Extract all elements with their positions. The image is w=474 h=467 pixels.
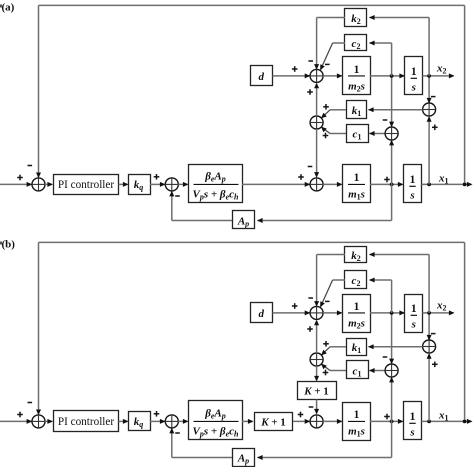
- node v2 junction (a): [390, 74, 394, 78]
- gain block k2 (b): [345, 247, 367, 264]
- svg-text:K + 1: K + 1: [303, 386, 329, 398]
- sign + k1 input coupling sum (a): [323, 104, 329, 110]
- sign + kq input sum2 (a): [154, 174, 160, 180]
- wire x1 output (b): [422, 419, 473, 424]
- svg-text:1: 1: [354, 301, 360, 313]
- sign + k1 input coupling sum (b): [323, 341, 329, 347]
- block integrator 1/s lower (a): [404, 165, 422, 203]
- wire TF to K+1 (b): [242, 419, 254, 424]
- svg-text:1: 1: [411, 66, 417, 78]
- gain block c2 (b): [345, 271, 367, 289]
- wire sum1 to PI (b): [45, 419, 53, 424]
- wire coupling to K+1 (b): [314, 366, 319, 382]
- svg-text:Vps + βech: Vps + βech: [193, 189, 239, 202]
- wire x1 feedback top (b): [36, 242, 465, 419]
- wire x2 up to k2 (a): [369, 15, 429, 76]
- wire sum2 to valve TF (a): [178, 182, 188, 187]
- sign + d input m2 (b): [292, 303, 298, 309]
- node v1 junction (a): [390, 183, 394, 187]
- summing junction coupling (a): [310, 116, 323, 129]
- gain block k1 (a): [347, 101, 367, 119]
- summing junction m2 (b): [310, 306, 323, 319]
- block hydraulic TF beAp/(Vps+bech) (a): [189, 165, 243, 203]
- sign + c1 input coupling sum (a): [323, 133, 329, 139]
- gain block kq (a): [129, 175, 151, 195]
- label x1 (a): [438, 173, 449, 186]
- node x2 tap (a): [427, 74, 431, 78]
- summing junction m1 (b): [310, 415, 323, 428]
- sign - k2 input m2 (b): [308, 297, 313, 299]
- svg-text:1: 1: [354, 172, 360, 184]
- sign - x2 input diff sum (a): [431, 96, 436, 98]
- wire v1 down to Ap (a): [257, 184, 392, 223]
- wire m1s out to integrator (a): [370, 182, 404, 187]
- svg-text:K + 1: K + 1: [260, 417, 286, 429]
- wire c2 to m2 sum (a): [320, 43, 345, 70]
- svg-text:s: s: [409, 190, 414, 202]
- sign - v2 input c1 sum (a): [383, 119, 388, 121]
- wire v2 down to c1 sum (b): [389, 313, 394, 364]
- node label (b): [0, 238, 15, 250]
- wire diff sum to k1 (a): [368, 107, 423, 112]
- gain block c1 (a): [347, 125, 369, 143]
- sign + c1 input coupling sum (b): [323, 370, 329, 376]
- block integrator 1/s upper (b): [405, 295, 423, 333]
- wire coupling to m1 sum (a): [314, 129, 319, 178]
- node x1 tap k-sum (a): [427, 183, 431, 187]
- summing junction diff x2-x1 (a): [423, 103, 436, 116]
- wire c1 sum to c1 (a): [369, 131, 385, 136]
- gain block K+1 forward (b): [255, 413, 293, 431]
- wire m1s out to integrator (b): [370, 419, 404, 424]
- wire coupling to m2 sum (b): [314, 320, 319, 353]
- node v1 junction (b): [390, 420, 394, 424]
- summing junction S1 (b): [32, 415, 45, 428]
- sign + kq input sum2 (b): [154, 411, 160, 417]
- gain block c2 (a): [345, 35, 367, 52]
- label x2 (a): [436, 63, 447, 76]
- svg-text:m1s: m1s: [348, 426, 365, 439]
- wire v2 up to c2 (b): [369, 278, 392, 313]
- sign - c2 input m2 (a): [325, 64, 330, 66]
- summing junction diff x2-x1 (b): [423, 340, 436, 353]
- wire x1 output (a): [422, 182, 473, 187]
- wire m2s out to integrator (a): [370, 73, 405, 78]
- sign + input sum1 (b): [17, 412, 23, 418]
- block integrator 1/s lower (b): [404, 402, 422, 440]
- svg-text:PI controller: PI controller: [58, 179, 115, 191]
- sign - c2 input m2 (b): [325, 301, 330, 303]
- block 1/m2s (b): [343, 295, 371, 333]
- node label (a): [0, 1, 15, 13]
- wire coupling to m2 sum (a): [314, 83, 319, 116]
- wire x2 down to diff sum (a): [427, 76, 432, 104]
- wire sum1 to PI (a): [45, 182, 53, 187]
- wire K+1 to m1 sum top (b): [314, 400, 319, 415]
- svg-text:(a): (a): [2, 1, 15, 13]
- wire x2 output (a): [423, 73, 455, 78]
- sign + TF input m1 sum (a): [298, 174, 304, 180]
- wire PI to kq (a): [119, 182, 129, 187]
- wire c1 sum to c1 (b): [369, 368, 385, 373]
- svg-text:d: d: [258, 308, 264, 320]
- wire k2 to m2 sum (a): [314, 18, 345, 70]
- wire x1 up to diff sum (a): [427, 116, 432, 184]
- wire k2 to m2 sum (b): [314, 255, 345, 307]
- svg-text:Vps + βech: Vps + βech: [193, 426, 239, 439]
- summing junction S2 (a): [165, 178, 178, 191]
- svg-text:1: 1: [411, 303, 417, 315]
- wire x1 up to diff sum (b): [427, 353, 432, 421]
- wire K+1 to m1 sum (b): [293, 419, 310, 424]
- gain block k2 (a): [345, 9, 367, 27]
- summing junction S2 (b): [165, 415, 178, 428]
- sign + x1 input diff sum (a): [432, 125, 438, 131]
- sign + d input m2 (a): [292, 66, 298, 72]
- label x1 (b): [438, 410, 449, 423]
- wire v1 up to c1 sum (a): [389, 140, 394, 185]
- svg-text:1: 1: [354, 409, 360, 421]
- input block d (a): [251, 66, 273, 86]
- svg-text:m2s: m2s: [348, 81, 365, 94]
- sign + coupling input m2 (a): [307, 89, 313, 95]
- wire input r(b): [0, 419, 32, 424]
- wire x1 feedback top (a): [36, 5, 465, 182]
- wire diff sum to k1 (b): [368, 344, 423, 349]
- wire v2 down to c1 sum (a): [389, 76, 394, 127]
- wire x2 up to k2 (b): [369, 252, 429, 313]
- label x2 (b): [436, 300, 447, 313]
- summing junction S1 (a): [32, 178, 45, 191]
- block 1/m1s (b): [343, 403, 371, 441]
- sign - k2 input m2 (a): [308, 60, 313, 62]
- block 1/m1s (a): [343, 165, 371, 203]
- summing junction coupling (b): [310, 353, 323, 366]
- svg-text:PI controller: PI controller: [58, 416, 115, 428]
- sign - feedback sum1 (a): [28, 165, 33, 167]
- sign - x2 input diff sum (b): [431, 333, 436, 335]
- wire PI to kq (b): [119, 419, 129, 424]
- gain block Ap (b): [233, 449, 255, 467]
- wire Ap to sum2 (a): [169, 191, 232, 221]
- input block d (b): [251, 303, 273, 323]
- block integrator 1/s upper (a): [405, 57, 423, 95]
- wire m2s out to integrator (b): [370, 310, 405, 315]
- gain block kq (b): [129, 412, 151, 431]
- wire d to m2 sum (b): [273, 310, 311, 315]
- wire c2 to m2 sum (b): [320, 280, 345, 307]
- sign - coupling input m1 (a): [308, 166, 313, 168]
- svg-text:s: s: [411, 319, 416, 331]
- svg-text:m1s: m1s: [348, 189, 365, 202]
- summing junction m1 (a): [310, 178, 323, 191]
- wire kq to sum2 (a): [150, 182, 166, 187]
- svg-text:1: 1: [410, 174, 416, 186]
- block hydraulic TF beAp/(Vps+bech) (b): [189, 401, 243, 440]
- svg-text:1: 1: [354, 64, 360, 76]
- wire m1 sum to 1/m1s (a): [323, 182, 342, 187]
- gain block Ap (a): [233, 211, 255, 229]
- block PI controller (b): [54, 411, 119, 432]
- node v2 junction (b): [390, 311, 394, 315]
- wire v2 up to c2 (a): [369, 41, 392, 76]
- sign + coupling input m2 (b): [307, 326, 313, 332]
- wire c1 to coupling sum (a): [321, 127, 346, 134]
- gain block K+1 coupling (b): [298, 382, 337, 400]
- wire m2 sum to 1/m2s (a): [323, 73, 342, 78]
- sign + input sum1 (a): [17, 175, 23, 181]
- sign - v2 input c1 sum (b): [383, 356, 388, 358]
- svg-text:m2s: m2s: [348, 318, 365, 331]
- wire sum2 to valve TF (b): [178, 419, 188, 424]
- wire v1 up to c1 sum (b): [389, 377, 394, 422]
- summing junction m2 (a): [310, 69, 323, 82]
- wire k1 to coupling sum (b): [321, 347, 346, 356]
- wire input r(a): [0, 182, 32, 187]
- block 1/m2s (a): [343, 57, 371, 95]
- svg-text:s: s: [411, 82, 416, 94]
- sign - K+1 input m1 (b): [309, 406, 314, 408]
- wire m1 sum to 1/m1s (b): [323, 419, 342, 424]
- node x1 tap k-sum (b): [427, 420, 431, 424]
- wire x2 down to diff sum (b): [427, 313, 432, 341]
- svg-text:s: s: [409, 427, 414, 439]
- summing junction c1 diff (a): [385, 127, 398, 140]
- sign - Ap input sum2 (a): [175, 195, 180, 197]
- sign - feedback sum1 (b): [28, 402, 33, 404]
- sign + K+1 input m1 sum (b): [298, 412, 304, 418]
- svg-text:1: 1: [410, 411, 416, 423]
- node x1 tap feedback (a): [463, 183, 467, 187]
- wire kq to sum2 (b): [150, 419, 166, 424]
- sign + x1 input diff sum (b): [432, 362, 438, 368]
- node x2 tap (b): [427, 311, 431, 315]
- wire TF to m1 sum (a): [242, 182, 310, 187]
- node x1 tap feedback (b): [463, 420, 467, 424]
- wire m2 sum to 1/m2s (b): [323, 310, 342, 315]
- svg-text:(b): (b): [2, 238, 16, 250]
- wire v1 down to Ap (b): [257, 421, 392, 460]
- block PI controller (a): [54, 175, 119, 195]
- wire x2 output (b): [423, 310, 455, 315]
- sign - Ap input sum2 (b): [175, 432, 180, 434]
- gain block k1 (b): [347, 339, 367, 356]
- sign + v1 to c1 sum (a): [384, 177, 390, 183]
- summing junction c1 diff (b): [385, 364, 398, 377]
- wire d to m2 sum (a): [273, 73, 311, 78]
- wire c1 to coupling sum (b): [321, 364, 346, 371]
- wire k1 to coupling sum (a): [321, 110, 346, 119]
- sign + v1 to c1 sum (b): [384, 414, 390, 420]
- gain block c1 (b): [347, 361, 369, 379]
- wire Ap to sum2 (b): [169, 428, 232, 458]
- svg-text:d: d: [258, 71, 264, 83]
